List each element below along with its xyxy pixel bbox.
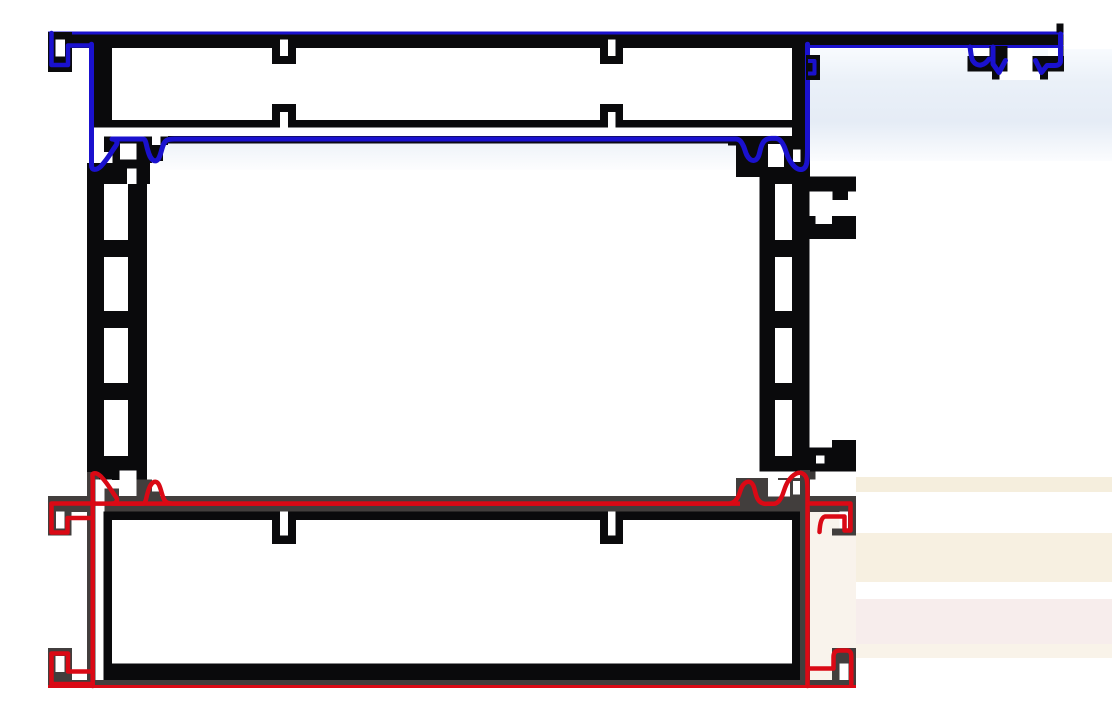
red gasket contour: main squiggle line across bottom frame [92, 473, 807, 686]
bottom gasket gray block right [736, 478, 810, 512]
ladder right hole 3 [775, 328, 792, 383]
bottom frame lower-right hook left column [832, 664, 840, 681]
top rail blue under edge (right section) [806, 45, 1064, 48]
red gasket contour: upper-right hook inner line [808, 504, 851, 533]
bottom gasket right hole 1 [768, 472, 778, 497]
ladder left hole 3 [104, 328, 128, 383]
screw boss top 2 [600, 47, 623, 64]
bottom box top wall [104, 512, 792, 521]
glazing clip bottom right: left block [808, 448, 833, 472]
ladder left hole 2 [104, 257, 128, 311]
top gasket right hole 1 [768, 144, 784, 167]
bottom gasket left hole [120, 471, 137, 496]
hook A gasket blue line right part [993, 47, 1006, 73]
glazing ladder left [87, 184, 147, 480]
screw boss bottom 2 slot [608, 112, 616, 128]
top gasket stair backing [152, 145, 163, 161]
top gasket block right [736, 136, 810, 177]
shading band: pink strip right-bottom [856, 599, 1112, 644]
bottom frame upper-right hook lip [832, 529, 856, 536]
top rail blue top edge [48, 32, 1064, 35]
bottom frame upper-right hook bar [807, 496, 856, 512]
blue gasket contour: left hook inner line [52, 33, 92, 65]
top-left hook body [48, 32, 72, 72]
bottom gasket gray stair 2 [160, 499, 168, 512]
bottom box boss 2 slot [608, 512, 616, 536]
right glazing channel hook A foot [992, 72, 999, 80]
screw boss bottom 2 [600, 104, 623, 121]
ladder left top mass [87, 163, 150, 184]
right glazing channel hook B body [1032, 56, 1064, 72]
bottom frame bottom bar [48, 680, 856, 688]
bottom box right wall [792, 512, 804, 682]
bottom gasket right hole 2 [778, 480, 790, 497]
right glazing channel under-feet white [1000, 72, 1041, 80]
bottom frame right rail strip [800, 470, 810, 688]
top-left hook notch [56, 40, 66, 57]
top gasket line backing strip [168, 136, 740, 144]
top frame bottom wall [104, 120, 806, 128]
bottom frame gray gasket band [48, 496, 810, 512]
top rail bar [48, 32, 1064, 49]
right glazing channel hook A stem [990, 46, 1008, 56]
bottom box boss 1 slot [280, 512, 288, 536]
blue clip inner line [808, 61, 815, 74]
bottom frame left slot [96, 480, 105, 681]
shading band: pale blue under top gasket line [160, 143, 806, 170]
right glazing channel T-slot white [1008, 48, 1033, 72]
ladder right hole 2 [775, 257, 792, 311]
right glazing channel hook B foot [1040, 72, 1048, 80]
bottom frame lower-right hook lip [832, 648, 856, 664]
top gasket stair black [160, 136, 168, 145]
screw boss bottom 1 slot [280, 112, 288, 128]
right glazing channel hook B right column [1058, 46, 1064, 72]
bottom box boss 2 [600, 512, 623, 545]
glazing clip bottom right: heel [808, 472, 816, 480]
glazing clip top right: lower bar [810, 224, 857, 239]
bottom gasket gray block left [104, 488, 119, 512]
glazing clip bottom right: block [832, 440, 856, 472]
bottom frame left rail strip [87, 472, 99, 688]
bottom box bottom wall [104, 664, 792, 682]
top frame right wall [792, 45, 806, 136]
glazing clip bottom right: hole [816, 456, 825, 464]
bottom frame upper-right hook column [848, 496, 856, 536]
top gasket block left [104, 136, 152, 163]
right glazing channel hook B notch [1048, 49, 1058, 56]
top gasket block right stair [728, 136, 736, 146]
hook A gasket blue line left part [970, 47, 989, 65]
glazing ladder right [760, 177, 810, 472]
shading band: pale cream behind bottom-right hooks [810, 512, 856, 680]
bottom gasket gray stair 1 [152, 492, 160, 513]
bottom frame lower-left hook notch [56, 656, 65, 672]
bottom frame upper-left hook notch [56, 512, 64, 529]
red bottom edge line [48, 685, 856, 688]
bottom frame lower-right hook notch [840, 664, 849, 681]
bottom frame lower-right hook column [848, 648, 856, 688]
ladder left hole 1 [104, 184, 128, 240]
shading band: cream strip right-bottom 1 [856, 477, 1112, 492]
hook B gasket blue line [1036, 34, 1061, 73]
red gasket contour: upper-left hook inner line [52, 504, 96, 533]
top rail right end tick [1057, 24, 1064, 33]
blue gasket contour: main squiggle line across frame [92, 44, 808, 169]
ladder right hole 4 [775, 400, 792, 456]
bottom box boss 1 [272, 512, 296, 545]
screw boss top 1 [272, 47, 296, 64]
top gasket block left hole [120, 144, 137, 160]
top gasket right hole 2 [793, 150, 800, 163]
screw boss top 2 slot [608, 40, 616, 57]
shading band: light blue area right of top frame [806, 49, 1112, 161]
red gasket contour: lower-left hook inner line [52, 654, 93, 685]
ladder left top slot [127, 169, 137, 185]
top frame left wall [93, 45, 112, 128]
shading band: faint cream strip right-bottom 3 [856, 644, 1112, 658]
bottom frame upper-left hook body [48, 496, 72, 536]
bottom box left wall [104, 512, 113, 682]
bottom gasket right hole 3 [793, 481, 800, 495]
glazing clip top right: lower tooth [832, 216, 856, 224]
red gasket contour: lower-right hook inner line [808, 651, 851, 685]
glazing clip top right: upper tooth [833, 192, 849, 201]
shading band: cream strip right-bottom 2 [856, 533, 1112, 582]
screw boss bottom 1 [272, 104, 296, 121]
right glazing channel hook A body [967, 56, 1007, 72]
ladder left hole 4 [104, 400, 128, 456]
glazing clip top right: upper bar [810, 176, 857, 191]
blue clip on right wall [806, 55, 820, 80]
bottom frame upper-right hook notch [840, 512, 848, 529]
red gasket contour: straight line through band [95, 501, 740, 506]
right glazing channel hook A notch [975, 49, 990, 56]
bottom frame left slot upper widening [96, 480, 113, 489]
screw boss top 1 slot [280, 40, 288, 57]
top gasket block left lower notch [96, 152, 112, 163]
glazing clip top right: left heel [810, 216, 816, 224]
bottom gasket gray block mid [137, 480, 153, 513]
bottom frame lower-left hook body [48, 648, 72, 688]
ladder right hole 1 [775, 184, 792, 240]
